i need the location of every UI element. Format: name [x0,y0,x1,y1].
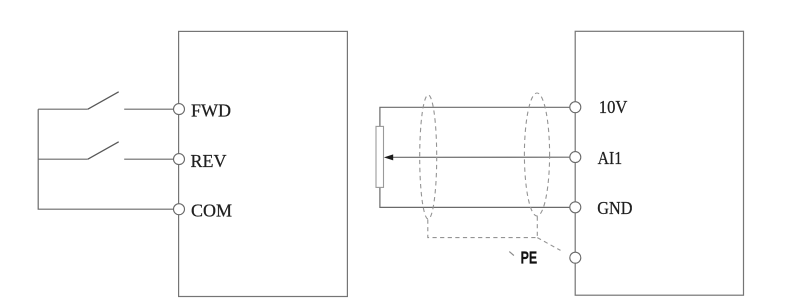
PE leader tick [509,252,514,256]
potentiometer wiper arrowhead [384,154,393,160]
wire: shield drain from loop 1 (dashed) [428,220,538,238]
wire: wiper to AI1 terminal [392,156,569,158]
terminal 10V [570,102,581,113]
svg-text:REV: REV [191,151,227,171]
wire: REV branch from bus to switch contact [38,158,88,160]
terminal COM [174,204,185,215]
svg-text:FWD: FWD [191,100,231,120]
wire: REV switch to REV terminal [124,158,173,160]
shielded cable loop 2 (dashed ellipse) [524,93,549,216]
wire: GND return (pot bottom lead and run to GND terminal) [380,187,570,207]
wire: switch common bus (left vertical + bottom run to COM) [38,109,173,209]
svg-text:10V: 10V [599,97,628,117]
switch REV (blade) [88,142,119,159]
wire: FWD branch from bus to switch contact [38,108,88,110]
shielded cable loop 1 (dashed ellipse) [420,95,437,219]
wire: shield drain diagonal toward PE terminal (dashed) [537,238,560,251]
switch FWD (blade) [88,92,119,109]
terminal REV [174,154,185,165]
right block (analog input terminal box) [575,31,743,295]
svg-text:PE: PE [521,247,538,267]
svg-text:AI1: AI1 [598,148,623,168]
svg-text:GND: GND [597,198,632,218]
terminal AI1 [570,152,581,163]
wire: FWD switch to FWD terminal [124,108,173,110]
terminal PE (unlabeled circle) [570,252,581,263]
potentiometer body [376,126,384,187]
left block (digital input terminal box) [179,31,348,296]
terminal GND [570,202,581,213]
wire: shield drain from loop 2 (dashed) [536,217,538,238]
svg-text:COM: COM [191,201,232,221]
wire: 10V supply (pot top lead and run to 10V terminal) [380,107,570,126]
terminal FWD [174,104,185,115]
